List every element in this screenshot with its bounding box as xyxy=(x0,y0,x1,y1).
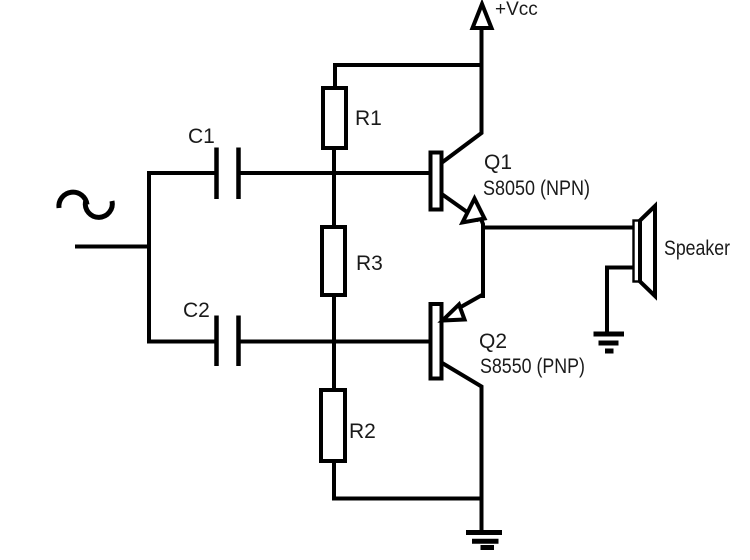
wire R3 to R2 xyxy=(332,295,336,390)
capacitor C2 xyxy=(217,316,239,367)
wire C2 right to Q2 base xyxy=(240,340,430,344)
resistor R2 xyxy=(321,390,345,461)
wire Q1 emitter to Q2 emitter xyxy=(481,219,483,298)
svg-text:R1: R1 xyxy=(355,107,382,130)
resistor R1 xyxy=(323,88,346,148)
svg-text:S8550 (PNP): S8550 (PNP) xyxy=(480,355,585,378)
svg-text:R3: R3 xyxy=(356,252,383,275)
svg-text:+Vcc: +Vcc xyxy=(495,0,538,20)
svg-text:Q1: Q1 xyxy=(484,151,512,174)
wire R2 to bottom rail xyxy=(334,461,482,499)
transistor Q2 xyxy=(431,295,483,379)
wire left rail vertical xyxy=(147,171,151,342)
wire AC source to left rail xyxy=(75,245,151,249)
wire top rail xyxy=(335,65,482,87)
svg-text:C1: C1 xyxy=(188,125,215,148)
wire C1 right to Q1 base xyxy=(240,171,430,175)
svg-text:C2: C2 xyxy=(183,299,210,322)
capacitor C1 xyxy=(217,148,239,200)
wire R1 to R3 xyxy=(332,148,336,227)
AC source xyxy=(59,192,112,217)
svg-text:S8050 (NPN): S8050 (NPN) xyxy=(483,177,590,200)
svg-text:R2: R2 xyxy=(349,420,376,443)
transistor Q1 xyxy=(431,153,485,223)
svg-text:Speaker: Speaker xyxy=(664,237,730,260)
wire C1 left xyxy=(147,171,215,175)
wire C2 left xyxy=(147,340,215,344)
speaker xyxy=(634,206,656,296)
wire emitter node to speaker xyxy=(481,226,634,230)
wire speaker to ground xyxy=(607,268,634,333)
+Vcc symbol xyxy=(473,4,492,65)
wire Q2 collector to ground xyxy=(441,362,482,531)
ground (bottom) xyxy=(466,533,502,548)
resistor R3 xyxy=(322,227,345,295)
svg-text:Q2: Q2 xyxy=(479,330,507,353)
ground (speaker) xyxy=(594,334,625,351)
wire Vcc vertical to Q1 collector xyxy=(442,63,482,163)
